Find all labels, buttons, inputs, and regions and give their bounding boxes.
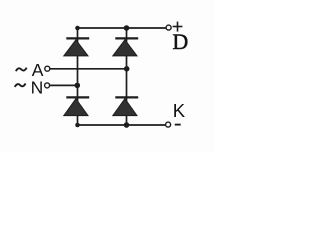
diode D1 top-left bbox=[64, 38, 89, 56]
node A line / right leg junction bbox=[124, 66, 130, 72]
minus sign at - terminal bbox=[175, 124, 181, 126]
terminal circle - output (bottom right) bbox=[166, 122, 171, 127]
node N line / left leg junction bbox=[75, 83, 81, 89]
wire left leg bbox=[77, 28, 79, 125]
node top-left corner bbox=[75, 26, 80, 31]
wire bottom rail bbox=[78, 124, 166, 126]
node bottom-left corner bbox=[75, 123, 80, 128]
tilde for A input bbox=[16, 68, 27, 71]
node bottom rail / right leg junction bbox=[124, 122, 130, 128]
svg-text:D: D bbox=[172, 29, 188, 54]
terminal circle N input bbox=[45, 83, 50, 88]
terminal circle A input bbox=[45, 66, 50, 71]
plus sign at + terminal bbox=[173, 22, 183, 32]
wire right leg bbox=[126, 28, 128, 125]
terminal circle + output (top right) bbox=[166, 25, 171, 30]
node top rail / right leg junction bbox=[124, 25, 130, 31]
wire A input line bbox=[50, 68, 127, 70]
wire N input line bbox=[50, 84, 78, 86]
wire top rail bbox=[78, 27, 167, 29]
svg-text:N: N bbox=[31, 77, 44, 97]
diode D4 bottom-right bbox=[113, 97, 138, 115]
svg-text:K: K bbox=[173, 100, 186, 121]
diode D2 top-right bbox=[113, 38, 138, 56]
tilde for N input bbox=[15, 84, 26, 87]
diode D3 bottom-left bbox=[64, 97, 89, 115]
